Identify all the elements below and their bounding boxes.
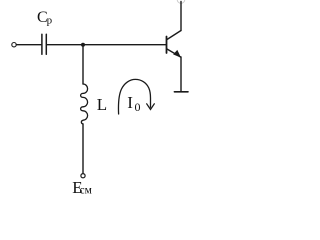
inductor L (81, 84, 88, 124)
current loop I0 (118, 79, 150, 114)
transistor Q1 emitter diagonal (167, 49, 181, 57)
terminal Есм (81, 174, 85, 178)
wire emitter down to ground (180, 57, 182, 91)
svg-text:Cp: Cp (37, 9, 53, 27)
wire capacitor to base (47, 44, 166, 46)
terminal remnant at top (faint clipped circle) (177, 0, 185, 3)
svg-text:Eсм: Eсм (72, 178, 92, 197)
transistor Q1 collector diagonal (167, 31, 181, 40)
ground (174, 91, 188, 93)
arrowhead of I0 (147, 104, 155, 110)
emitter arrowhead (174, 51, 180, 57)
wire junction down to inductor (82, 45, 84, 84)
wire collector up (180, 2, 182, 31)
svg-text:L: L (97, 95, 107, 114)
wire input to capacitor (16, 44, 41, 46)
wire inductor to terminal (82, 124, 84, 174)
input terminal (12, 43, 16, 47)
capacitor Cp (41, 34, 43, 54)
transistor Q1 base bar (166, 37, 168, 54)
node junction (81, 43, 85, 47)
svg-text:I0: I0 (127, 93, 140, 114)
